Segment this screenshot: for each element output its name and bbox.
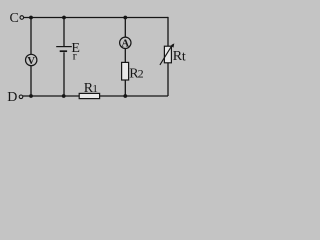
wire battery branch lower	[63, 52, 65, 96]
battery E long plate	[56, 46, 72, 48]
node junction top of ammeter branch	[123, 16, 127, 20]
voltmeter V	[26, 54, 37, 65]
wire below R2	[124, 80, 126, 96]
resistor R1 (box)	[79, 93, 99, 98]
svg-text:C: C	[10, 11, 19, 26]
svg-text:r: r	[73, 49, 77, 63]
svg-text:2: 2	[138, 67, 144, 81]
wire voltmeter branch lower	[30, 66, 32, 96]
svg-text:D: D	[7, 90, 17, 105]
svg-text:t: t	[182, 49, 186, 64]
wire between ammeter and R2	[124, 49, 126, 63]
svg-text:V: V	[27, 56, 35, 67]
wire top horizontal	[24, 17, 168, 19]
wire bottom horizontal right of R1	[100, 95, 168, 97]
resistor R2 (box)	[122, 62, 129, 80]
node junction bottom of voltmeter branch	[29, 94, 33, 98]
terminal C (open circle)	[20, 16, 24, 20]
svg-text:A: A	[122, 39, 130, 50]
node junction bottom of battery branch	[62, 94, 66, 98]
rheostat Rt (box)	[164, 46, 171, 63]
ammeter A	[120, 37, 131, 48]
arrow through Rt	[160, 44, 173, 65]
node junction bottom of ammeter branch	[123, 94, 127, 98]
node junction top of voltmeter branch	[29, 16, 33, 20]
wire bottom horizontal left of R1	[23, 95, 79, 97]
battery E short plate	[60, 50, 67, 52]
wire battery branch upper	[63, 18, 65, 47]
wire ammeter branch upper	[124, 18, 126, 38]
terminal D (open circle)	[19, 95, 23, 99]
svg-text:1: 1	[92, 83, 98, 95]
node junction top of battery branch	[62, 16, 66, 20]
wire right branch upper	[167, 17, 169, 46]
wire voltmeter branch upper	[30, 18, 32, 55]
wire right branch lower	[167, 63, 169, 96]
